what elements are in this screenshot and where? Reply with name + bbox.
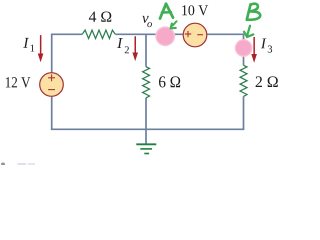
V2 minus sign [197,34,203,36]
current arrow I2 [132,36,138,61]
label 10 V [182,5,208,15]
wire left branch lower [51,97,53,130]
node B pink dot [235,40,251,56]
wire top right segment [207,34,244,65]
wire top left segment [51,33,82,35]
label 2 ohm [256,76,278,87]
label 6 ohm [159,76,180,87]
V1 plus sign [48,74,55,81]
annotation letter B [247,4,260,20]
wire middle branch lower + ground stub [145,98,147,144]
wire bottom [51,128,244,130]
annotation letter A [160,4,173,19]
label 4 ohm [89,12,111,22]
V2 plus sign [185,31,191,37]
wire right branch lower [243,96,245,129]
label I2 [117,38,123,48]
current arrow I1 [38,35,44,62]
resistor R 4ohm zigzag [82,30,115,38]
label vo node voltage [142,16,148,23]
label I1 [23,38,29,48]
node A pink dot [156,27,174,45]
label I3 [261,38,267,48]
annotation arrow from A to node [171,21,177,28]
wire middle branch upper [145,34,147,67]
wire top middle segment [115,33,183,35]
label 12 V [6,77,31,87]
wire left branch upper [51,34,53,72]
ground [136,144,156,153]
resistor R 6ohm zigzag [143,67,150,98]
voltage source V1 12V circle [40,73,64,97]
voltage source V2 10V circle [183,23,207,47]
annotation arrow from B to node [244,26,253,37]
V1 minus sign [48,89,55,91]
current arrow I3 [251,37,257,63]
resistor R 2ohm zigzag [240,65,247,96]
